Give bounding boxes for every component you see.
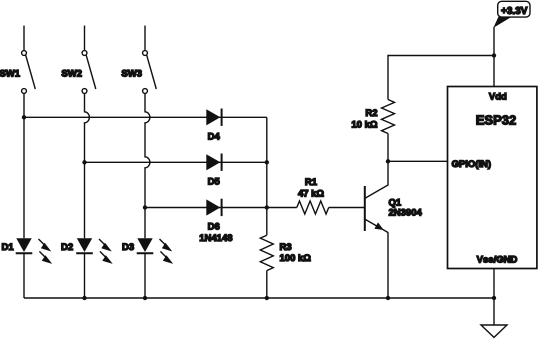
wire SW1 top stub [23,26,25,51]
junction node SW2-row2 [82,160,86,164]
wire bus to R1 [267,207,297,209]
svg-text:ESP32: ESP32 [476,112,516,127]
svg-text:Vss/GND: Vss/GND [477,254,518,265]
junction node emitter-rail [386,296,390,300]
svg-text:R1: R1 [305,177,318,188]
diode D4 [206,109,221,126]
junction node R3-rail [265,296,269,300]
wire R2 top to +3.3V branch [388,56,494,100]
wire LED D2 to rail [84,253,86,298]
svg-text:D6: D6 [208,222,220,233]
switch SW2 [82,51,96,94]
wire ground stem [493,298,495,325]
wire row3 (SW3 to R1) [145,207,267,209]
wire GPIO(IN) to junction [388,160,448,162]
wire R3 to ground rail [266,271,268,298]
wire SW2 vertical with hop over row1 [85,93,90,238]
svg-text:1N4148: 1N4148 [199,233,232,244]
svg-text:R2: R2 [365,108,377,119]
resistor R1 [297,201,329,214]
power flag +3.3V [493,1,530,28]
wire row1 (SW1 to diode bus) [24,116,267,118]
LED D2 [76,238,113,264]
junction node R2-GPIO-collector [386,159,390,163]
wire diode cathode bus [266,117,268,235]
wire Q1 collector up to junction [387,161,389,185]
wire SW2 top stub [84,26,86,51]
svg-text:R3: R3 [280,242,292,253]
junction node D3-rail [143,296,147,300]
transistor Q1 [365,185,388,233]
junction node SW1-row1 [22,115,26,119]
svg-text:D3: D3 [122,242,134,253]
svg-text:D1: D1 [2,242,15,253]
ground symbol [481,325,507,337]
wire +3.3V flag stem [493,27,495,56]
wire Vss pin to rail [493,269,495,299]
junction node bus-row2 [265,160,269,164]
resistor R3 [260,235,273,270]
IC U1 ESP32 box [448,87,537,269]
diode D5 [206,154,221,171]
svg-text:D5: D5 [208,176,221,187]
svg-text:10 kΩ: 10 kΩ [351,119,377,130]
svg-text:D2: D2 [61,242,73,253]
wire R2 bottom to GPIO junction [387,134,389,162]
LED D3 [137,238,174,264]
junction node 3.3V branch [492,53,496,57]
svg-text:Vdd: Vdd [489,92,507,103]
wire row2 (SW2 to diode bus) [85,161,267,163]
junction node bus-row3 [265,205,269,209]
wire Q1 emitter down to rail [387,232,389,298]
wire SW1 vertical to LED D1 [23,93,25,238]
svg-text:GPIO(IN): GPIO(IN) [452,159,492,170]
svg-text:2N3904: 2N3904 [389,208,423,219]
LED D1 [16,238,53,264]
wire SW3 top stub [144,26,146,51]
svg-text:SW2: SW2 [61,68,82,79]
switch SW3 [143,51,157,94]
junction node SW3-row3 [143,205,147,209]
wire ground rail [24,297,494,299]
resistor R2 [382,100,395,134]
svg-text:47 kΩ: 47 kΩ [298,188,324,199]
svg-text:SW3: SW3 [121,68,142,79]
svg-text:100 kΩ: 100 kΩ [280,253,312,264]
wire LED D1 to rail [23,253,25,298]
diode D6 [206,199,221,216]
switch SW1 [22,51,36,94]
wire LED D3 to rail [144,253,146,298]
svg-text:D4: D4 [208,131,221,142]
wire SW3 vertical with hops over row1 and row2 [145,93,150,238]
svg-text:+3.3V: +3.3V [501,6,528,17]
svg-text:SW1: SW1 [0,68,21,79]
wire Vdd pin drop [493,56,495,87]
junction node D2-rail [82,296,86,300]
junction node Vss-rail [492,296,496,300]
wire R1 to Q1 base [329,207,365,209]
